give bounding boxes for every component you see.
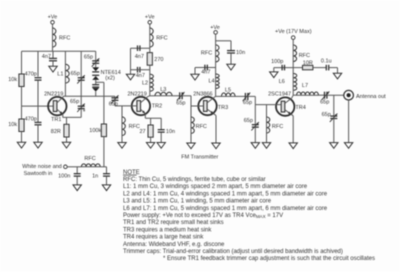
wire 4n7 to ground — [52, 61, 54, 66]
inductor RFC5 TR3 base choke — [191, 117, 207, 133]
wire base to lower 10k — [21, 106, 23, 119]
wire L4 to collector junction — [215, 89, 217, 97]
svg-text:65p: 65p — [320, 100, 329, 106]
wire L2 to TR2 collector junction — [149, 91, 151, 96]
svg-text:27: 27 — [140, 129, 146, 135]
capacitor C-470p upper — [25, 71, 42, 80]
svg-text:RFC: RFC — [201, 51, 212, 57]
wire antenna line to shunt trimmer — [333, 95, 335, 116]
wire 82R to ground — [66, 137, 68, 142]
wire RFC3 to ground — [121, 136, 123, 143]
resistor R-100k modulation feed — [89, 124, 106, 137]
capacitor C-1n shunt — [92, 167, 110, 180]
ground under 4n7 stage1 — [49, 66, 57, 72]
power terminal +Ve stage4 — [275, 29, 312, 39]
wire L6 to collector junction — [292, 90, 294, 95]
svg-text:2N2219: 2N2219 — [128, 91, 147, 97]
input terminal — [64, 165, 68, 169]
svg-text:L7: L7 — [302, 83, 308, 89]
wire L1 to collector rail — [64, 83, 66, 96]
svg-text:10R: 10R — [303, 60, 313, 66]
inductor RFC2 supply choke stage2 — [150, 28, 168, 47]
TR1 emitter wire — [57, 109, 63, 117]
wire node to 4n7 stage3 — [195, 67, 216, 69]
wire feedback trimmer to emitter rail — [80, 109, 82, 118]
svg-text:RFC: RFC — [299, 53, 310, 59]
svg-text:* Ensure TR1 feedback trimmer: * Ensure TR1 feedback trimmer cap adjust… — [163, 256, 375, 262]
wire 10R to 0.1u — [313, 67, 326, 69]
TR4 collector wire — [285, 95, 293, 103]
wire 1n to ground — [106, 176, 108, 185]
wire coupling trimmer to TR2 base — [114, 100, 116, 106]
resistor R-270 — [147, 53, 163, 66]
svg-text:L1: L1 — [57, 71, 63, 77]
svg-text:4n7: 4n7 — [42, 54, 51, 60]
inductor RFC7 TR4 base choke — [267, 117, 284, 133]
svg-text:4n7: 4n7 — [136, 73, 145, 79]
ground under base shunt trimmer — [251, 143, 259, 149]
svg-text:TR2: TR2 — [152, 104, 162, 110]
ground under 100n — [73, 185, 81, 191]
TR3 emitter wire — [207, 109, 216, 143]
svg-text:100n: 100n — [58, 174, 70, 180]
wire collector junction to L5 — [216, 95, 222, 97]
wire +Ve to RFC2 — [149, 24, 151, 28]
trimmer capacitor 65p varicap chain — [84, 55, 99, 67]
capacitor C-10n decoupling stage3 — [227, 50, 245, 56]
svg-text:+Ve: +Ve — [145, 15, 155, 21]
wire varicap chain to collector rail — [95, 92, 97, 97]
ground under 4n7 stage3 — [191, 74, 199, 80]
transistor Q TR3 2N3866 — [193, 91, 228, 115]
wire varicap junction — [95, 80, 97, 84]
svg-text:RFC: RFC — [272, 124, 283, 130]
svg-text:+Ve: +Ve — [48, 15, 58, 21]
wire L5 to trimmer — [235, 95, 245, 97]
wire base rail to RFC5 — [190, 106, 192, 117]
trimmer capacitor 65p antenna series — [320, 91, 329, 105]
svg-text:TR4 requires a large heat sink: TR4 requires a large heat sink — [123, 235, 204, 241]
ground under TR3 emitter — [212, 143, 220, 149]
ground left branch stage2 — [126, 74, 134, 80]
wire bus to tank trimmer — [80, 51, 82, 77]
wire emitter to 82R — [66, 117, 68, 124]
wire bus to C-4n7 stage1 — [52, 51, 54, 58]
inductor L5 coupling — [222, 87, 236, 96]
wire node to 10R — [293, 67, 302, 69]
wire bus to varicap trimmer — [95, 51, 97, 61]
svg-text:470p: 470p — [25, 71, 37, 77]
power terminal +Ve stage1 — [48, 15, 58, 25]
capacitor C-0.1u — [321, 58, 332, 70]
svg-text:White noise and: White noise and — [22, 164, 61, 170]
ground after 0.1u — [333, 73, 341, 79]
capacitor C-470p lower — [25, 116, 42, 125]
wire TR1 base rail — [22, 105, 54, 107]
varicap diode D1 NTE614 — [92, 67, 99, 72]
svg-text:+Ve (17V Max): +Ve (17V Max) — [275, 29, 312, 35]
wire lower 470p to ground — [37, 125, 39, 142]
wire antenna connector to ground — [348, 100, 350, 143]
varicap diode D2 NTE614 — [92, 75, 99, 80]
svg-text:Antenna: Wideband VHF, e.g. di: Antenna: Wideband VHF, e.g. discone — [123, 242, 225, 248]
inductor L6 — [279, 74, 297, 91]
wire collector junction to L7 — [293, 94, 296, 96]
wire 100n to ground — [76, 176, 78, 185]
wire node to 100p — [274, 67, 293, 69]
varicap lower diode element — [92, 88, 99, 92]
wire base corner to shunt trimmer — [254, 105, 256, 125]
svg-text:65p: 65p — [243, 100, 252, 106]
wire tank trimmer to collector rail — [80, 80, 82, 96]
wire RFC7 to ground — [266, 133, 268, 143]
trimmer capacitor 65p coupling stage3-4 — [243, 93, 252, 106]
inductor L4 — [209, 74, 220, 89]
ground under 10n stage2 — [157, 143, 165, 149]
svg-text:L2 and L4: 1 mm Cu, 4 windings: L2 and L4: 1 mm Cu, 4 windings spaced 1 … — [123, 191, 328, 197]
svg-text:RFC: Thin Cu, 5 windings, ferr: RFC: Thin Cu, 5 windings, ferrite tube, … — [123, 177, 266, 183]
wire left branch stage2 — [130, 48, 132, 74]
svg-text:L4: L4 — [209, 79, 215, 85]
wire antenna shunt trimmer to ground — [333, 119, 335, 143]
svg-text:2N3866: 2N3866 — [193, 91, 212, 97]
TR2 base rail — [115, 105, 137, 107]
wire RFC5 to ground — [190, 133, 192, 143]
wire base rail to RFC3 — [121, 106, 123, 117]
svg-text:TR1: TR1 — [51, 117, 61, 123]
svg-text:L3: L3 — [160, 87, 166, 93]
svg-text:TR4: TR4 — [295, 105, 305, 111]
capacitor C-100p stage4 — [271, 59, 284, 70]
transistor Q TR4 2SC1947 — [268, 92, 306, 116]
wire varicap junction to 100k — [96, 82, 104, 124]
svg-text:*: * — [83, 109, 86, 116]
capacitor C-100n input shunt — [58, 167, 81, 180]
svg-text:Antenna out: Antenna out — [356, 94, 386, 100]
wire stage1 top bus — [22, 50, 96, 52]
svg-text:(x2): (x2) — [105, 75, 115, 81]
wire RFC2 to node A — [149, 47, 151, 53]
ground under RFC3 — [118, 143, 126, 149]
ground under 27R — [146, 143, 154, 149]
wire input to RFC — [67, 166, 81, 168]
svg-text:Power supply: +Ve not to excee: Power supply: +Ve not to exceed 17V as T… — [123, 213, 283, 219]
ground under lower 10k — [17, 142, 25, 148]
svg-text:10k: 10k — [8, 122, 17, 128]
svg-text:FM Transmitter: FM Transmitter — [181, 154, 218, 160]
wire RFC to 1n node — [100, 166, 106, 168]
wire base rail to RFC7 — [266, 105, 268, 117]
svg-text:L5: L5 — [225, 87, 231, 93]
svg-text:L3 and L5: 1 mm Cu, 1 winding,: L3 and L5: 1 mm Cu, 1 winding, 5 mm diam… — [123, 199, 272, 205]
svg-text:TR3 requires a medium heat sin: TR3 requires a medium heat sink — [123, 227, 212, 233]
wire RFC1 to bus — [52, 47, 54, 51]
svg-text:0.1u: 0.1u — [321, 58, 332, 64]
transistor Q TR2 2N2219 — [128, 91, 163, 115]
inductor L3 coupling — [155, 87, 172, 96]
svg-text:L6 and L7: 1 mm Cu, 5 windings: L6 and L7: 1 mm Cu, 5 windings spaced 1 … — [123, 206, 328, 212]
resistor R-27 emitter stage2 — [140, 125, 154, 137]
wire 4n7 stage3 to ground — [194, 68, 196, 75]
power terminal +Ve stage2 — [145, 15, 155, 25]
trimmer capacitor 65p TR4 base shunt — [244, 118, 259, 130]
svg-text:82R: 82R — [51, 129, 61, 135]
svg-text:65p: 65p — [244, 118, 253, 124]
inductor L7 antenna coupling — [297, 83, 319, 95]
svg-text:10n: 10n — [236, 50, 245, 56]
wire stage3 branch to 10n — [216, 41, 231, 51]
svg-text:RFC: RFC — [196, 124, 207, 130]
ground under TR4 emitter — [289, 143, 297, 149]
svg-text:2SC1947: 2SC1947 — [268, 92, 291, 98]
wire 470p to base rail — [37, 80, 39, 122]
capacitor C-10n emitter bypass stage2 — [158, 118, 175, 135]
label NTE614 (x2) — [101, 70, 121, 81]
TR3 base rail — [191, 105, 204, 107]
TR3 collector wire — [207, 96, 216, 102]
wire lower 10k to ground — [21, 132, 23, 143]
wire 100p to ground — [273, 68, 275, 72]
ground under antenna connector — [344, 143, 352, 149]
svg-text:4n7: 4n7 — [201, 69, 210, 75]
inductor RFC3 TR2 base choke — [122, 117, 140, 136]
wire RFC6 to node — [292, 62, 294, 74]
capacitor C-4n7 stage1 bus decoupling — [42, 54, 57, 61]
wire trimmer to TR4 base corner — [248, 96, 255, 104]
inductor RFC1 supply choke stage1 — [53, 28, 71, 47]
power terminal +Ve stage3 — [210, 25, 220, 34]
ground under antenna shunt trimmer — [330, 143, 338, 149]
wire trimmer to antenna connector — [327, 94, 344, 96]
wire trimmer to D1 — [95, 63, 97, 67]
inductor L1 tank coil — [57, 64, 69, 83]
title FM Transmitter — [181, 154, 218, 160]
trimmer capacitor 65p feedback TR1 — [70, 99, 86, 116]
resistor R-10k lower — [8, 119, 24, 132]
antenna output connector — [344, 90, 386, 100]
trimmer capacitor 65p tank stage1 — [71, 71, 85, 84]
inductor RFC audio input — [81, 156, 100, 167]
wire bus to L1 — [64, 51, 66, 64]
svg-text:65p: 65p — [70, 99, 79, 105]
ground under lower 470p — [34, 142, 42, 148]
TR2 collector wire — [141, 96, 150, 103]
inductor L2 — [142, 74, 153, 91]
transistor Q TR1 2N2219 — [44, 91, 66, 123]
wire L7 to antenna trimmer — [318, 94, 324, 96]
svg-text:L1: 1 mm Cu, 3 windings spaced: L1: 1 mm Cu, 3 windings spaced 2 mm apar… — [123, 184, 308, 190]
trimmer capacitor 65p coupling to TR2 — [109, 95, 119, 107]
wire node A to 4n7 upper — [131, 47, 150, 49]
ground under 82R — [62, 142, 70, 148]
svg-text:RFC: RFC — [59, 35, 70, 41]
inductor RFC6 supply choke stage4 — [293, 45, 310, 62]
ground under 10n stage3 — [227, 64, 235, 70]
svg-text:4n7: 4n7 — [135, 54, 144, 60]
TR2 emitter wire — [141, 109, 146, 118]
svg-text:65p: 65p — [71, 71, 80, 77]
wire RFC4 to node — [215, 62, 217, 74]
ground under 1n — [102, 185, 110, 191]
svg-text:10k: 10k — [8, 77, 17, 83]
svg-text:100p: 100p — [271, 59, 283, 65]
TR4 emitter wire — [285, 110, 293, 143]
wire 27R to ground — [150, 137, 152, 142]
capacitor C-4n7 stage3 — [201, 65, 210, 76]
wire R-10k to base rail — [21, 87, 23, 107]
TR4 base rail — [255, 104, 281, 106]
svg-text:65p: 65p — [84, 55, 93, 61]
resistor R-82R emitter — [51, 124, 69, 137]
wire 270 to L2 — [149, 65, 151, 74]
label white noise sawtooth input — [22, 164, 61, 177]
wire collector rail to feedback trimmer — [80, 96, 82, 106]
wire collector rail to coupling trimmer TR2 — [114, 96, 116, 98]
wire TR1 emitter rail — [63, 116, 81, 118]
svg-text:1n: 1n — [92, 174, 98, 180]
notes block — [123, 170, 375, 262]
svg-text:Trimmer caps: Trial-and-error: Trimmer caps: Trial-and-error calibratio… — [123, 249, 343, 255]
svg-text:TR3: TR3 — [218, 105, 228, 111]
svg-text:470p: 470p — [25, 116, 37, 122]
svg-text:RFC: RFC — [156, 35, 167, 41]
ground under 100p — [270, 72, 278, 78]
wire 10n stage3 to ground — [230, 53, 232, 64]
wire trimmer to TR3 base corner — [182, 96, 191, 106]
wire bus to C-470p upper — [37, 51, 39, 76]
resistor R-10R — [303, 60, 313, 69]
svg-text:100k: 100k — [89, 128, 101, 134]
wire TR1 collector rail — [63, 95, 115, 97]
svg-text:10n: 10n — [166, 129, 175, 135]
svg-text:65p: 65p — [176, 101, 185, 107]
wire L3 to trimmer — [172, 95, 180, 97]
ground under RFC7 — [262, 143, 270, 149]
trimmer capacitor 65p antenna shunt — [322, 112, 338, 122]
wire +Ve to RFC1 — [52, 24, 54, 28]
wire TR2 emitter rail — [145, 117, 161, 119]
svg-text:65p: 65p — [322, 112, 331, 118]
svg-text:L2: L2 — [142, 80, 148, 86]
wire emitter to 27R — [150, 118, 152, 125]
svg-text:270: 270 — [154, 57, 163, 63]
svg-text:65p: 65p — [109, 102, 118, 108]
capacitor plates varicap lower — [92, 85, 99, 87]
resistor R-10k upper — [8, 74, 24, 87]
capacitor C-4n7 upper stage2 — [135, 45, 144, 60]
wire 0.1u to ground — [329, 68, 338, 74]
wire +Ve stage4 down — [292, 39, 294, 45]
wire lower 4n7 rail — [131, 69, 150, 71]
TR1 collector wire — [57, 96, 63, 103]
wire +Ve stage3 down — [215, 34, 217, 45]
ground under RFC5 — [187, 143, 195, 149]
svg-text:Sawtooth in: Sawtooth in — [24, 171, 53, 177]
wire shunt trimmer to ground — [254, 127, 256, 142]
wire bus to R1 — [21, 51, 23, 74]
capacitor C-4n7 lower stage2 — [136, 67, 145, 79]
svg-text:+Ve: +Ve — [210, 25, 220, 31]
trimmer capacitor 65p coupling stage2-3 — [176, 92, 185, 107]
svg-text:TR1 and TR2 require small heat: TR1 and TR2 require small heat sinks — [123, 220, 224, 226]
wire 100k down to audio rail — [103, 137, 105, 167]
svg-text:L6: L6 — [279, 79, 285, 85]
wire collector junction to L3 — [150, 95, 155, 97]
wire 10n to ground — [160, 132, 162, 142]
svg-text:2N2219: 2N2219 — [44, 91, 63, 97]
inductor RFC4 supply choke stage3 — [201, 45, 219, 62]
svg-text:RFC: RFC — [129, 124, 140, 130]
svg-text:RFC: RFC — [84, 156, 95, 162]
